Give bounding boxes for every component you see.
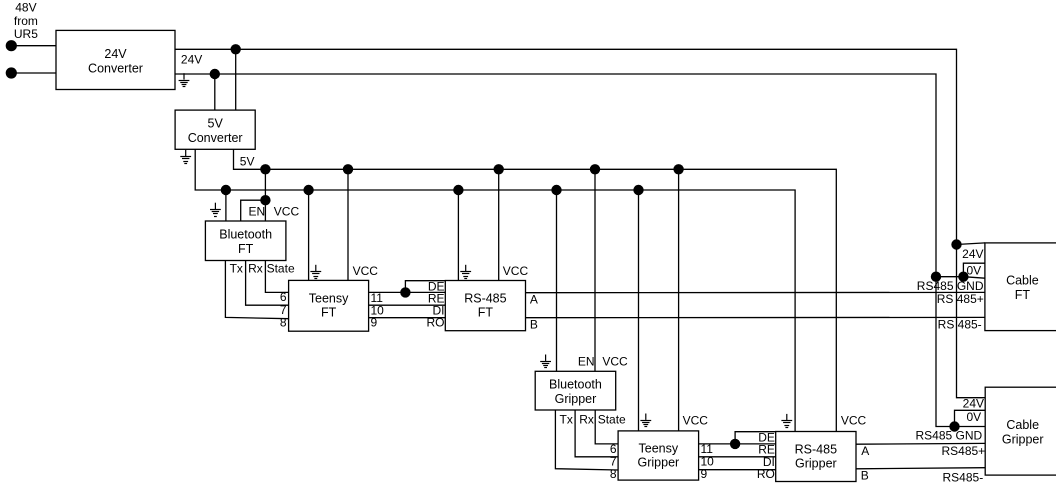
wire Bluetooth Gripper Rx to Teensy Gripper pin 7 [575,410,618,457]
wire Teensy Gripper pin 9 to RS-485 Gripper RO [699,469,776,471]
svg-text:Cable: Cable [1006,274,1039,288]
module RS-485 FT [445,281,525,331]
wire Bluetooth FT State to Teensy FT pin 6 [265,261,288,293]
svg-text:8: 8 [610,467,617,481]
node junction DE/RE Gripper [730,439,740,449]
svg-text:RS 485-: RS 485- [938,318,982,332]
wire Teensy Gripper pin 11 to RS-485 Gripper RE [699,443,776,445]
module Bluetooth Gripper [535,371,616,410]
svg-text:9: 9 [371,316,378,330]
wire GND to Teensy FT [308,190,310,280]
wire 5V to Bluetooth FT VCC [264,169,266,221]
wire Bluetooth FT Rx to Teensy FT pin 7 [246,261,289,306]
wire GND to Bluetooth FT [225,190,227,221]
module RS-485 Gripper [776,432,856,482]
svg-text:EN: EN [578,354,595,368]
wire 24V rail [175,49,985,397]
ground (Bluetooth Gripper) [540,355,551,368]
node 5V junction Bluetooth Gripper [590,164,600,174]
svg-text:RS485+: RS485+ [941,444,985,458]
svg-text:VCC: VCC [841,414,867,428]
svg-text:RS-485: RS-485 [464,292,506,306]
svg-text:EN: EN [249,204,266,218]
module Teensy Gripper [618,431,699,480]
svg-text:Rx: Rx [579,413,594,427]
5V converter [175,110,255,149]
wire 5V to RS-485 FT VCC [498,169,500,280]
ground (RS-485 Gripper) [781,414,792,428]
wire GND to Teensy Gripper [638,190,640,431]
ground (Bluetooth FT) [210,203,221,217]
node GND junction Bluetooth Gripper [551,185,561,195]
wire Teensy FT pin 10 to RS-485 FT DI [369,304,446,306]
svg-text:Tx: Tx [560,413,573,427]
wire A FT to RS 485+ [526,291,985,293]
wire input+ to 24V converter [11,45,56,47]
wire 24V branch to Cable FT [957,243,985,245]
svg-text:5V: 5V [240,154,255,168]
svg-text:5V: 5V [208,117,224,131]
wire DE jog Gripper [735,432,776,444]
svg-text:VCC: VCC [602,354,628,368]
wire GND2 rail [195,149,795,431]
wire B FT to RS 485- [526,316,985,318]
input terminal + (48V from UR5) [6,40,17,51]
svg-text:Teensy: Teensy [309,292,349,306]
wire EN jog Bluetooth FT [241,200,266,221]
svg-text:Gripper: Gripper [638,455,680,469]
svg-text:State: State [267,262,295,276]
svg-text:0V: 0V [967,410,982,424]
svg-text:0V: 0V [967,263,982,277]
svg-text:UR5: UR5 [14,27,38,41]
wire 5V to Teensy FT VCC [347,169,349,280]
svg-text:8: 8 [280,316,287,330]
wire B Gripper to RS485- [856,468,985,469]
wire GND to 5V converter [214,74,216,110]
node 0V junction Cable Gripper [949,421,959,431]
wire GND to RS-485 FT [457,190,459,281]
node 24V junction (5V converter feed) [231,44,241,54]
svg-text:24V: 24V [962,247,983,261]
node GND junction Cable FT [931,272,941,282]
wire Bluetooth Gripper State to Teensy Gripper pin 6 [595,410,618,444]
wire Teensy FT pin 9 to RS-485 FT RO [369,317,446,319]
svg-text:B: B [861,469,869,483]
module Bluetooth FT [205,221,286,261]
svg-text:VCC: VCC [503,264,529,278]
wire Teensy Gripper pin 10 to RS-485 Gripper DI [699,456,776,458]
node 5V junction Teensy Gripper [673,164,683,174]
svg-text:FT: FT [238,242,254,256]
wire GND branch to Cable FT [936,277,985,279]
svg-text:FT: FT [321,306,337,320]
svg-text:RS 485+: RS 485+ [937,292,984,306]
wire GND rail [175,74,985,427]
ground (5V converter) [180,150,191,164]
node GND junction Bluetooth FT [221,185,231,195]
wire GND to Bluetooth Gripper [556,190,558,371]
24V converter [56,30,175,89]
svg-text:Bluetooth: Bluetooth [549,378,602,392]
svg-text:A: A [861,444,869,458]
wire 24V to 5V converter [235,49,237,110]
svg-text:VCC: VCC [353,264,379,278]
svg-text:9: 9 [701,467,708,481]
wire Teensy FT pin 11 to RS-485 FT RE [369,291,446,293]
module Teensy FT [289,280,369,331]
svg-text:FT: FT [1015,288,1031,302]
svg-text:from: from [14,14,38,28]
svg-text:24V: 24V [963,397,984,411]
wire 5V rail [234,149,837,431]
module Cable FT [985,243,1056,331]
svg-text:VCC: VCC [683,414,709,428]
wire Bluetooth FT Tx to Teensy FT pin 8 [225,261,288,319]
node GND junction RS-485 FT [453,185,463,195]
svg-text:RO: RO [757,467,775,481]
svg-text:VCC: VCC [274,204,300,218]
node GND junction Teensy FT [303,185,313,195]
svg-text:Tx: Tx [230,262,243,276]
node 5V junction Teensy FT [343,164,353,174]
ground (Teensy Gripper) [640,414,651,427]
wire 0V jog Cable Gripper [955,410,986,426]
svg-text:RS485-: RS485- [943,471,984,485]
svg-text:Converter: Converter [188,131,243,145]
svg-text:Teensy: Teensy [639,441,679,455]
svg-text:RO: RO [427,316,445,330]
svg-text:24V: 24V [181,52,202,66]
node 5V junction RS-485 FT [494,164,504,174]
svg-text:Gripper: Gripper [555,392,597,406]
node 24V junction Cable FT [951,239,961,249]
svg-text:Rx: Rx [248,262,263,276]
wire Bluetooth Gripper Tx to Teensy Gripper pin 8 [555,410,618,470]
svg-text:24V: 24V [104,47,127,61]
wire 0V jog Cable FT [963,263,985,277]
svg-text:RS-485: RS-485 [795,442,837,456]
input terminal - (48V from UR5) [6,67,17,78]
module Cable Gripper [985,387,1056,475]
wire A Gripper to RS485+ [856,442,985,445]
node 0V junction Cable FT [958,272,968,282]
svg-text:RS485 GND: RS485 GND [917,279,984,293]
svg-text:A: A [530,293,538,307]
wire 5V to Bluetooth Gripper EN/VCC [594,169,596,371]
svg-text:State: State [598,413,626,427]
ground (24V converter output) [179,73,190,86]
svg-text:Bluetooth: Bluetooth [219,228,272,242]
node junction EN/VCC Bluetooth FT [260,195,270,205]
svg-text:Converter: Converter [88,61,143,75]
ground (RS-485 FT) [460,265,471,279]
node junction DE/RE FT [400,287,410,297]
wire input- to 24V converter [11,72,56,74]
svg-text:RS485 GND: RS485 GND [915,429,982,443]
wire 5V to Teensy Gripper VCC [678,169,680,431]
svg-text:Gripper: Gripper [795,456,837,470]
ground (Teensy FT) [310,265,321,279]
svg-text:Cable: Cable [1006,418,1039,432]
svg-text:48V: 48V [15,1,36,15]
svg-text:B: B [530,318,538,332]
node GND junction (5V converter feed) [210,69,220,79]
wire DE jog FT [405,281,445,293]
svg-text:FT: FT [478,305,494,319]
node GND junction Teensy Gripper [633,185,643,195]
svg-text:Gripper: Gripper [1002,432,1044,446]
node 5V junction Bluetooth FT [260,164,270,174]
